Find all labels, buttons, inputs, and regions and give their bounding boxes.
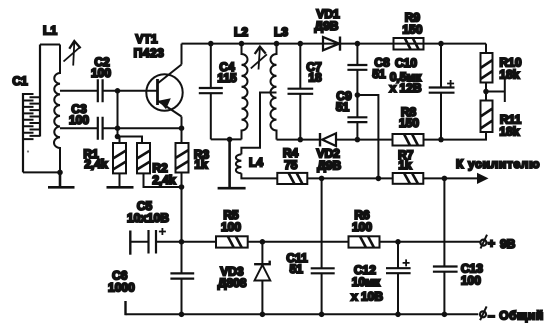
svg-text:L1: L1 [43,24,57,38]
diode VD2 [320,133,336,147]
node: C10 bottom [438,137,444,143]
svg-text:18: 18 [308,71,322,85]
node: VD3 ground [260,312,266,318]
resistor R10 [481,44,493,92]
wire +9V rail [130,231,148,255]
inductor L4 [236,154,242,173]
svg-text:Д808: Д808 [218,276,247,290]
svg-text:18k: 18k [499,67,519,81]
svg-text:10мк: 10мк [352,275,381,289]
svg-text:1000: 1000 [108,280,135,294]
svg-text:100: 100 [352,220,372,234]
wire top rail (collector) [182,43,487,45]
inductor L3 (tapped) [270,44,276,140]
node: C9 bottom [355,137,361,143]
wire R8 to R11 bottom [424,132,487,140]
wire R6 to +9V terminal [380,241,481,243]
terminal +9V [480,235,487,249]
resistor R6 [349,236,380,247]
resistor R8 [393,134,424,146]
svg-text:100: 100 [461,274,481,288]
svg-text:К усилителю: К усилителю [456,157,540,171]
resistor R11 [481,92,493,133]
svg-text:150: 150 [399,116,419,130]
svg-text:L3: L3 [274,25,288,39]
node: C4 top [208,41,214,47]
svg-text:– Общий: – Общий [488,309,544,323]
L1 variable arrow [64,41,81,66]
svg-text:115: 115 [217,71,237,85]
wire L3 bottom to VD2 [277,139,321,141]
wire C2 to VT1 base [104,90,158,92]
resistor R7 [393,173,424,184]
ground (under L2/C4) [218,139,246,188]
wire C1 bottom to L1 bottom [23,171,60,173]
svg-text:10х10В: 10х10В [127,211,169,225]
svg-text:100: 100 [91,66,111,80]
svg-text:51: 51 [372,67,386,81]
wire bias column [117,91,119,137]
wire C4 bottom to L2 bottom [211,138,242,140]
wire emitter column to R3 [181,128,183,143]
resistor R1 [113,137,126,187]
capacitor C9 [347,95,367,140]
capacitor C13 [433,178,458,314]
node: C12 top [395,239,401,245]
ground (under R1) [107,186,134,189]
node: ground branch [227,137,233,143]
svg-text:100: 100 [221,220,241,234]
resistor R4 [277,173,307,184]
svg-text:51: 51 [290,262,304,276]
svg-text:100: 100 [69,113,89,127]
wire L4 bottom to R4 [241,173,277,178]
node: C8/C9 tap junction [376,176,382,182]
resistor R5 [216,236,248,247]
capacitor C6 [170,242,194,314]
svg-text:2,4k: 2,4k [84,157,108,171]
L2/L3 coupling arrow [251,47,267,70]
svg-text:1k: 1k [194,158,208,172]
capacitor C5 (electrolytic) [149,228,217,254]
diode VD1 [323,37,340,51]
node: C3/divider junction [115,125,121,131]
capacitor C2 [98,79,103,102]
wire L3 tap to L4 [241,93,276,155]
resistor R2 [137,143,182,187]
wire R4 to R7 [307,177,392,179]
wire VD2 to R8 [337,139,393,141]
node: L1/C1 bottom junction [57,170,63,176]
svg-text:Д9В: Д9В [315,19,339,33]
wire R5 to R6 [248,241,349,243]
node: C7 top [298,41,304,47]
terminal common [480,306,487,320]
node: C11 ground [319,312,325,318]
node: L2 top [239,41,245,47]
resistor R9 [394,38,424,50]
wire R1/R2 top bar [118,137,143,144]
svg-text:51: 51 [336,100,350,114]
svg-text:C1: C1 [12,74,28,88]
node: C7 bottom [298,137,304,143]
wire C3 to emitter column [104,127,182,129]
svg-text:L4: L4 [249,156,263,170]
svg-text:L2: L2 [234,25,248,39]
capacitor C4 [199,44,223,140]
capacitor C1 (variable, multi-plate) [23,45,40,173]
node: R10/R11 junction [483,89,489,95]
node: R1 top junction [115,134,121,140]
wire L1 tap to C2 [60,90,98,92]
node: base/bias junction [115,88,121,94]
node: C5/C6/R3 junction [179,239,185,245]
svg-text:+: + [488,237,495,251]
svg-text:18k: 18k [499,124,519,138]
svg-text:VT1: VT1 [135,32,157,46]
transistor VT1 (PNP) [146,44,182,129]
svg-text:П423: П423 [134,46,165,60]
svg-text:Д9В: Д9В [317,159,341,173]
capacitor C11 [311,178,335,314]
node: L3 top [274,41,280,47]
svg-text:C10: C10 [395,56,417,70]
svg-text:1k: 1k [398,158,412,172]
inductor L1 (tapped coil) [54,45,60,173]
node: C10 top [438,41,444,47]
capacitor C8 [347,44,367,95]
zener diode VD3 [254,242,270,314]
wire C8/C9 tap down to R7 row [357,95,378,178]
wire R3 to C5 node [181,173,183,242]
wire ground rail [126,301,479,315]
capacitor C3 [98,117,103,140]
node: C12 ground [395,312,401,318]
node: R7/C13 junction [442,176,448,182]
inductor L2 [242,44,248,140]
svg-text:75: 75 [284,158,298,172]
wire to amplifier arrow [423,177,478,179]
capacitor C7 [288,44,314,140]
wire L1 lower tap to C3 [60,127,98,129]
svg-text:х 10В: х 10В [351,290,383,304]
wire C1 top to L1 top [40,44,60,46]
node: R3/R2 bottom junction [179,184,185,190]
node: C8 top [355,41,361,47]
scan speck [27,150,29,152]
svg-text:2,4k: 2,4k [152,173,176,187]
capacitor C10 (electrolytic) [429,44,455,140]
ground (under L1) [48,172,75,187]
svg-text:9В: 9В [500,237,516,251]
node: VD3 top [260,239,266,245]
svg-text:х 12В: х 12В [389,81,421,95]
resistor R3 [176,143,189,173]
node: C13 ground [442,312,448,318]
node: C8/C9 junction [355,92,361,98]
wire divider stub [486,79,505,102]
svg-text:150: 150 [402,22,422,36]
node: R4/C11 junction [319,176,325,182]
node: C6 ground [179,312,185,318]
capacitor C12 (electrolytic) [386,242,411,314]
node: emitter junction [179,125,185,131]
